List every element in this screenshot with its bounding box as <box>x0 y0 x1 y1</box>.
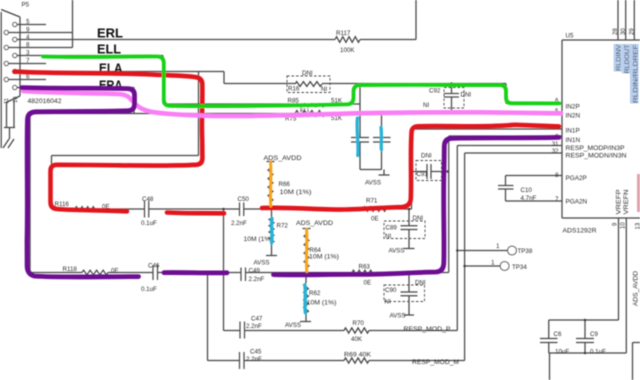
svg-text:ADS_AVDD: ADS_AVDD <box>633 271 640 306</box>
svg-text:R71: R71 <box>366 198 378 205</box>
svg-text:10M (1%): 10M (1%) <box>307 301 337 307</box>
svg-text:C90: C90 <box>385 287 397 294</box>
svg-text:28: 28 <box>613 28 619 35</box>
svg-text:NI: NI <box>385 299 391 306</box>
svg-text:32: 32 <box>552 149 559 155</box>
svg-text:RLDINV: RLDINV <box>616 44 623 71</box>
svg-text:29: 29 <box>630 28 636 35</box>
svg-text:482016042: 482016042 <box>28 98 63 105</box>
svg-text:PGA2N: PGA2N <box>566 199 588 206</box>
svg-text:C45: C45 <box>250 349 262 356</box>
svg-text:AVSS: AVSS <box>365 180 381 187</box>
svg-text:10: 10 <box>621 222 627 229</box>
svg-text:10uF: 10uF <box>555 349 569 356</box>
svg-text:P5: P5 <box>22 2 30 9</box>
svg-text:AVSS: AVSS <box>254 260 270 267</box>
svg-text:10M (1%): 10M (1%) <box>309 255 339 261</box>
svg-text:0.1uF: 0.1uF <box>590 349 606 356</box>
svg-text:DNI: DNI <box>461 92 472 99</box>
svg-text:RLDIN/RLDREF: RLDIN/RLDREF <box>632 44 639 103</box>
svg-text:DNI: DNI <box>302 70 313 77</box>
svg-text:C50: C50 <box>238 196 250 203</box>
svg-text:AVSS: AVSS <box>389 248 405 255</box>
svg-text:R16: R16 <box>288 86 300 93</box>
svg-text:TP34: TP34 <box>512 264 527 271</box>
svg-text:R69 40K: R69 40K <box>344 352 372 359</box>
svg-text:AVSS: AVSS <box>390 313 406 320</box>
svg-text:ADS_AVDD: ADS_AVDD <box>296 220 334 227</box>
svg-text:RESP_MODN/IN3N: RESP_MODN/IN3N <box>566 152 627 159</box>
svg-text:2.2nF: 2.2nF <box>231 220 247 227</box>
svg-text:C89: C89 <box>386 225 398 232</box>
svg-text:NI: NI <box>321 86 327 93</box>
svg-text:10M (1%): 10M (1%) <box>280 190 312 196</box>
svg-text:C47: C47 <box>251 316 263 323</box>
svg-text:0E: 0E <box>364 280 372 287</box>
svg-text:IN2N: IN2N <box>566 112 581 119</box>
svg-text:C49: C49 <box>249 268 261 275</box>
svg-text:TP38: TP38 <box>518 248 533 255</box>
svg-text:IN1P: IN1P <box>566 127 580 134</box>
svg-text:DNI: DNI <box>415 280 426 287</box>
svg-text:ADS_AVDD: ADS_AVDD <box>264 155 303 162</box>
svg-text:RLDOUT: RLDOUT <box>624 44 631 73</box>
svg-text:AVSS: AVSS <box>285 322 301 329</box>
svg-text:RESP_MODP/IN3P: RESP_MODP/IN3P <box>566 145 625 152</box>
svg-text:IN2P: IN2P <box>566 104 580 111</box>
svg-text:C92: C92 <box>429 88 441 95</box>
svg-text:R117: R117 <box>336 30 351 37</box>
svg-text:R66: R66 <box>279 181 291 188</box>
svg-text:NI: NI <box>385 233 391 240</box>
svg-text:10M (1%): 10M (1%) <box>244 237 273 243</box>
svg-text:30: 30 <box>621 28 627 35</box>
svg-text:ERL: ERL <box>97 27 123 41</box>
svg-text:40K: 40K <box>351 336 363 343</box>
svg-text:VREFP: VREFP <box>616 190 623 215</box>
svg-text:2.2nF: 2.2nF <box>249 276 265 283</box>
svg-text:U5: U5 <box>566 33 574 40</box>
svg-text:R72: R72 <box>277 223 289 230</box>
svg-text:C9: C9 <box>590 331 598 338</box>
svg-text:C6: C6 <box>554 331 562 338</box>
svg-text:R70: R70 <box>353 320 365 327</box>
svg-text:RESP_MOD_P: RESP_MOD_P <box>404 326 451 333</box>
svg-text:ADS1292R: ADS1292R <box>563 228 597 235</box>
svg-text:11: 11 <box>4 98 10 104</box>
svg-text:31: 31 <box>552 142 559 148</box>
svg-text:R118: R118 <box>63 266 78 273</box>
svg-text:R64: R64 <box>310 247 322 254</box>
svg-text:0E: 0E <box>111 268 119 275</box>
svg-text:13: 13 <box>636 222 640 229</box>
svg-text:ELL: ELL <box>97 43 121 57</box>
svg-text:C46: C46 <box>148 263 160 270</box>
svg-text:2.2nF: 2.2nF <box>246 356 262 363</box>
svg-text:100K: 100K <box>340 47 355 54</box>
svg-text:4.7nF: 4.7nF <box>521 195 537 202</box>
svg-text:DNI: DNI <box>413 215 424 222</box>
svg-text:2.2nF: 2.2nF <box>246 323 262 330</box>
svg-text:PGA2P: PGA2P <box>566 175 587 182</box>
svg-text:VREFN: VREFN <box>623 189 630 215</box>
svg-text:C91: C91 <box>417 171 429 178</box>
svg-text:NI: NI <box>423 102 429 109</box>
svg-text:R62: R62 <box>309 290 321 297</box>
svg-text:RESP_MOD_M: RESP_MOD_M <box>412 359 459 366</box>
svg-text:IN1N: IN1N <box>566 137 581 144</box>
svg-text:DNI: DNI <box>421 153 432 160</box>
svg-text:10: 10 <box>13 97 19 103</box>
svg-text:0.1uF: 0.1uF <box>141 220 157 227</box>
svg-text:0E: 0E <box>371 216 379 223</box>
svg-text:C48: C48 <box>142 196 154 203</box>
svg-text:R63: R63 <box>359 264 371 271</box>
svg-text:0.1uF: 0.1uF <box>141 286 157 293</box>
svg-text:C10: C10 <box>521 187 533 194</box>
